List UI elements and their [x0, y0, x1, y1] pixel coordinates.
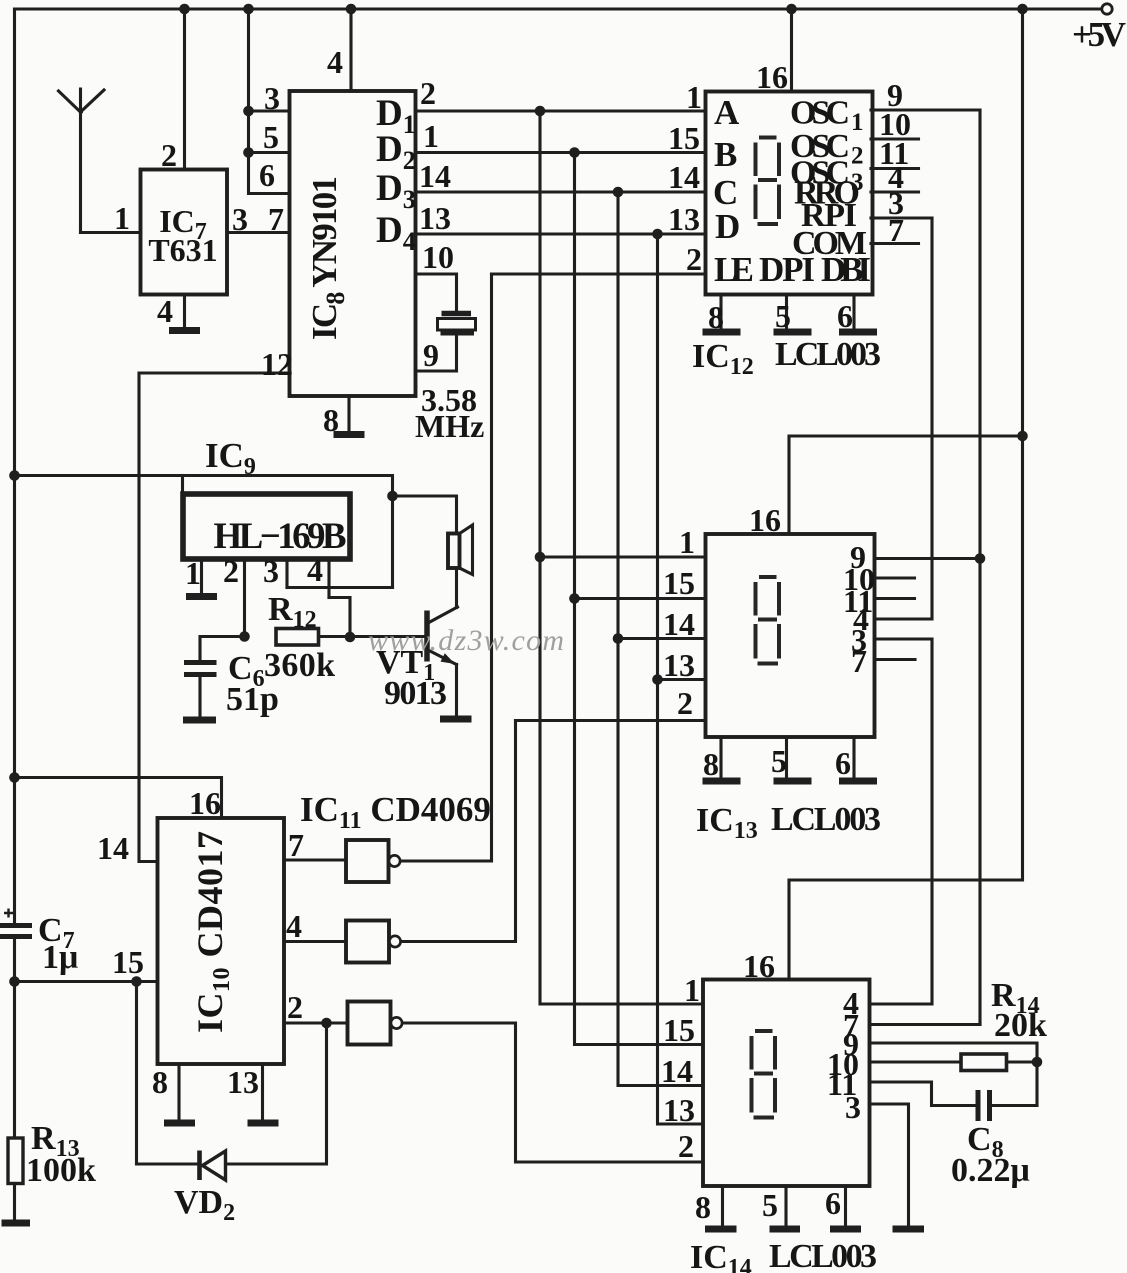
wire +5V vertical down to IC14 pin16: [789, 9, 1023, 980]
antenna: [59, 89, 105, 233]
wire antenna to IC7 pin1: [81, 200, 141, 236]
svg-text:LCL003: LCL003: [771, 801, 881, 838]
ground HL pin1: [186, 593, 217, 600]
wire IC8 pins 3,5,6 to rail: [249, 9, 290, 194]
ground R13: [2, 1220, 31, 1227]
junction pin3: [243, 106, 254, 117]
label IC11 CD4069: [300, 790, 491, 834]
wire pin4 jog to VT1 base node: [329, 598, 350, 638]
svg-text:B: B: [714, 135, 737, 174]
svg-text:1: 1: [185, 555, 201, 591]
svg-text:360k: 360k: [264, 647, 335, 684]
wire IC13 pin15: [575, 565, 706, 601]
7-segment digit icon IC12: [754, 136, 782, 227]
junction D4/IC13 pin13: [652, 674, 663, 685]
wire IC13 pin9 to OSC1: [850, 539, 980, 575]
label IC14 LCL003: [690, 1238, 877, 1273]
junction border pin15: [9, 976, 20, 987]
junction rail-IC7: [179, 4, 190, 15]
ground IC12 pin8: [703, 329, 741, 336]
resistor R12 360k: [264, 591, 427, 684]
wire IC13 pin3 to IC14 pin4: [870, 639, 933, 1004]
wire IC10 pin16 to left border: [15, 778, 222, 822]
svg-text:1μ: 1μ: [42, 939, 78, 976]
capacitor C7 1u (polarized): [0, 909, 78, 977]
wire R13 to ground: [13, 1184, 16, 1221]
svg-text:8: 8: [152, 1064, 168, 1100]
label IC14 pin4: [843, 985, 859, 1021]
svg-text:2: 2: [678, 1128, 694, 1164]
stub IC13 pin10: [843, 561, 915, 597]
svg-text:20k: 20k: [994, 1007, 1047, 1044]
wire IC13 pin1: [540, 524, 706, 560]
stub IC12 pin11: [871, 135, 919, 171]
wire +5V top rail: [15, 7, 1102, 10]
junction D1/IC13 pin1: [535, 552, 546, 563]
svg-text:IC8 YN9101: IC8 YN9101: [305, 176, 350, 340]
wire IC9 top net from left border: [15, 476, 393, 588]
label IC14 pin13: [663, 1092, 695, 1128]
junction D3/IC13 pin14: [613, 633, 624, 644]
wire IC10 pin13: [227, 1064, 263, 1121]
transistor VT1 9013: [376, 607, 458, 717]
7-segment digit icon IC13: [754, 575, 782, 666]
svg-text:15: 15: [663, 1012, 695, 1048]
svg-text:8: 8: [703, 746, 719, 782]
label IC13 LCL003: [696, 801, 881, 844]
svg-text:IC10 CD4017: IC10 CD4017: [190, 831, 235, 1033]
svg-text:LE: LE: [714, 250, 754, 289]
wire IC14 pin11 to C8: [827, 1066, 976, 1106]
ground VT1 emitter: [440, 716, 472, 723]
IC14 LCL003: [703, 948, 870, 1186]
svg-text:1: 1: [686, 79, 702, 115]
label IC14 pin1: [684, 972, 700, 1008]
svg-text:16: 16: [189, 785, 221, 821]
svg-text:15: 15: [663, 565, 695, 601]
wire IC13 pin14: [618, 606, 706, 642]
label IC13 pin2: [677, 685, 693, 721]
svg-text:2: 2: [161, 137, 177, 173]
wire gate2 output to IC13 pin2: [401, 721, 516, 942]
svg-text:15: 15: [668, 120, 700, 156]
svg-text:3: 3: [232, 201, 248, 237]
7-segment digit icon IC14: [750, 1029, 778, 1120]
resistor R14 20k: [961, 977, 1047, 1071]
svg-text:OSC: OSC: [790, 95, 850, 132]
svg-text:14: 14: [668, 159, 700, 195]
wire LE vertical to gate1 output: [490, 274, 493, 860]
svg-text:IC11 CD4069: IC11 CD4069: [300, 790, 491, 834]
svg-text:1: 1: [679, 524, 695, 560]
wire OSC1 vertical (IC12 pin9 - IC13 pin9 - IC14 pin7): [978, 110, 981, 1025]
wire IC13 pin6: [835, 737, 854, 781]
junction rail-right vertical: [1017, 4, 1028, 15]
ground IC13 pin5: [774, 778, 812, 785]
svg-text:100k: 100k: [26, 1152, 96, 1189]
ground IC12 pin5: [774, 329, 812, 336]
junction D3: [613, 187, 624, 198]
svg-text:5: 5: [771, 743, 787, 779]
ground IC14 pin5: [770, 1226, 801, 1233]
wire IC12 pin9 OSC1: [871, 77, 980, 113]
wire VD2 to IC10 pin2 node: [226, 1023, 327, 1164]
wire IC13 pin13: [658, 647, 706, 683]
wire HL pin3: [263, 553, 287, 589]
ground IC10 pin13: [248, 1120, 279, 1127]
watermark: [368, 624, 564, 657]
label IC14 pin2: [678, 1128, 694, 1164]
svg-text:LCL003: LCL003: [769, 1238, 877, 1273]
svg-text:D: D: [715, 207, 740, 246]
svg-text:1: 1: [423, 118, 439, 154]
crystal 3.58MHz: [415, 314, 484, 445]
svg-text:7: 7: [288, 827, 304, 863]
svg-text:HL−169B: HL−169B: [214, 516, 347, 557]
label IC14 pin14: [661, 1053, 693, 1089]
svg-text:MHz: MHz: [415, 408, 484, 444]
svg-text:3: 3: [263, 553, 279, 589]
wire speaker to VT1 collector: [455, 568, 458, 608]
svg-text:14: 14: [419, 158, 451, 194]
label IC10 pin14: [97, 830, 129, 866]
wire to speaker: [393, 496, 457, 534]
svg-text:3: 3: [845, 1089, 861, 1125]
IC12 LCL003: [706, 92, 873, 295]
stub IC12 pin4: [871, 159, 919, 195]
svg-text:14: 14: [661, 1053, 693, 1089]
ground IC12 pin6: [839, 329, 877, 336]
svg-text:7: 7: [268, 201, 284, 237]
wire IC7 pin3 to IC8 pin7: [227, 201, 290, 237]
wire IC12 pin6: [837, 295, 854, 335]
svg-text:2: 2: [686, 241, 702, 277]
svg-text:10: 10: [422, 239, 454, 275]
svg-text:9: 9: [423, 337, 439, 373]
junction D2/IC13 pin15: [569, 593, 580, 604]
wire IC12 pin8: [708, 295, 724, 336]
stub IC13 pin11: [843, 583, 915, 619]
wire IC14 pin9 to R14 node: [843, 1026, 1037, 1062]
junction pin5: [243, 147, 254, 158]
wire IC13 pin16 to +5V: [789, 436, 1023, 534]
wire RPI vertical (IC12 pin3 - IC13 pin4): [875, 218, 933, 619]
stub IC12 pin10: [871, 106, 919, 142]
inverter gate3 IC11: [348, 1002, 403, 1045]
svg-text:2: 2: [420, 75, 436, 111]
svg-text:15: 15: [112, 944, 144, 980]
wire D2 bus vertical to IC14 pin15: [575, 153, 704, 1045]
label IC13 pin4: [853, 601, 869, 637]
svg-text:14: 14: [663, 606, 695, 642]
junction pin15 VD2 branch: [131, 976, 142, 987]
ground IC13 pin8: [703, 778, 741, 785]
wire HL pin2 down to R12 node: [223, 553, 245, 637]
svg-text:+5V: +5V: [1072, 15, 1126, 54]
svg-text:1: 1: [114, 200, 130, 236]
label IC13 pin3: [851, 622, 867, 658]
wire IC10 pin2 to gate3: [284, 989, 348, 1025]
svg-text:www.dz3w.com: www.dz3w.com: [368, 624, 564, 657]
wire HL pin4: [307, 552, 329, 598]
IC8 YN9101: [290, 91, 416, 396]
wire C7 to pin15 node and R13: [13, 939, 16, 1138]
svg-text:12: 12: [261, 346, 293, 382]
wire gate3 output to IC14 pin2: [403, 1023, 704, 1162]
junction pin2 VD2: [321, 1018, 332, 1029]
wire D3 bus vertical to IC14 pin14: [618, 192, 703, 1086]
svg-text:4: 4: [307, 552, 323, 588]
svg-text:A: A: [714, 93, 740, 132]
wire HL-169B top-left to IC9 net: [181, 476, 184, 494]
wire IC14 pin6: [825, 1185, 846, 1227]
junction left border IC9: [9, 470, 20, 481]
terminal +5V: [1072, 4, 1126, 54]
ground IC10 pin8: [164, 1120, 195, 1127]
IC7 T631: [141, 170, 228, 295]
wire D4 IC8 pin13 to IC12 D: [416, 200, 706, 237]
label D4: [376, 210, 416, 256]
ground C6: [183, 717, 216, 724]
wire D1 IC8 pin2 to IC12 A: [416, 75, 706, 115]
svg-text:3: 3: [264, 80, 280, 116]
ground IC14 pin6: [830, 1226, 861, 1233]
inverter gate1 IC11: [346, 840, 400, 882]
wire LE line to IC12 pin2: [492, 241, 706, 277]
svg-text:13: 13: [668, 201, 700, 237]
label D1: [376, 93, 416, 139]
svg-text:2: 2: [677, 685, 693, 721]
svg-text:13: 13: [419, 200, 451, 236]
junction +5V/IC13 pin16: [1017, 431, 1028, 442]
svg-text:13: 13: [227, 1064, 259, 1100]
junction D2: [569, 147, 580, 158]
stub IC12 pin7: [871, 212, 919, 248]
svg-text:2: 2: [287, 989, 303, 1025]
svg-text:16: 16: [749, 502, 781, 538]
wire pins3-4 link: [287, 586, 393, 589]
ground IC14 pin8: [705, 1226, 737, 1233]
label D3: [376, 168, 416, 214]
svg-text:5: 5: [263, 119, 279, 155]
junction rail-IC12 pin16: [786, 4, 797, 15]
junction HL pin2 / C6 / R12: [239, 631, 250, 642]
svg-text:LCL003: LCL003: [775, 336, 881, 373]
svg-text:13: 13: [663, 647, 695, 683]
svg-text:6: 6: [835, 745, 851, 781]
capacitor C6: [184, 637, 279, 719]
svg-text:1: 1: [684, 972, 700, 1008]
IC10 CD4017: [158, 818, 285, 1064]
svg-text:16: 16: [756, 59, 788, 95]
wire IC10 pin4 to gate2: [284, 908, 346, 944]
junction D4: [652, 229, 663, 240]
label IC12 LCL003: [692, 336, 881, 380]
svg-text:51p: 51p: [226, 681, 279, 718]
junction speaker branch: [387, 491, 398, 502]
label IC14 pin15: [663, 1012, 695, 1048]
wire IC12 pin16 to rail: [756, 9, 792, 95]
wire D2 IC8 pin1 to IC12 B: [416, 118, 706, 156]
diode VD2: [174, 1151, 235, 1227]
svg-text:6: 6: [825, 1185, 841, 1221]
junction D1: [535, 106, 546, 117]
wire D4 bus vertical to IC14 pin13: [658, 234, 704, 1124]
svg-text:5: 5: [762, 1187, 778, 1223]
wire IC8 pin4 to rail: [327, 9, 351, 91]
junction left border pin16: [9, 772, 20, 783]
svg-text:6: 6: [259, 157, 275, 193]
wire gate1 output to LE12 vertical: [401, 859, 492, 862]
wire IC14 pin5: [762, 1186, 786, 1227]
wire IC7 pin2 to rail: [161, 9, 185, 173]
ground IC8 pin8: [334, 431, 365, 438]
wire IC13 pin5: [771, 737, 787, 779]
junction rail-IC8 pin4: [346, 4, 357, 15]
svg-text:0.22μ: 0.22μ: [951, 1152, 1030, 1189]
wire IC13 pin2 horizontal: [516, 719, 706, 722]
svg-text:4: 4: [327, 44, 343, 80]
svg-text:7: 7: [888, 212, 904, 248]
speaker: [448, 525, 473, 575]
wire crystal to IC8 pin9: [416, 336, 457, 374]
wire IC8 pin12 down to IC10 pin14: [139, 346, 293, 862]
ground IC14 pin3: [893, 1226, 925, 1233]
svg-text:9013: 9013: [384, 675, 447, 712]
resistor R13 100k: [8, 1120, 96, 1189]
wire IC14 pin8: [695, 1186, 723, 1227]
svg-text:2: 2: [851, 143, 864, 170]
inverter gate2 IC11: [346, 921, 401, 963]
ground IC7 pin4: [169, 327, 200, 334]
junction R14/C8 node: [1032, 1057, 1043, 1068]
svg-text:1: 1: [851, 109, 864, 136]
svg-text:COM: COM: [792, 225, 867, 262]
svg-text:4: 4: [286, 908, 302, 944]
IC13 LCL003: [706, 502, 875, 737]
wire IC13 pin8: [703, 737, 721, 782]
svg-text:T631: T631: [148, 232, 217, 268]
junction R12 right / VT1 base: [345, 632, 356, 643]
svg-text:2: 2: [223, 553, 239, 589]
wire IC10 pin8: [152, 1064, 179, 1121]
wire D1 bus vertical to IC14 pin1: [540, 111, 703, 1004]
wire IC14 pin7 to OSC1 vertical: [843, 1007, 980, 1043]
wire IC7 pin4: [157, 293, 185, 329]
junction OSC1/IC13 pin9: [975, 553, 986, 564]
svg-text:8: 8: [695, 1189, 711, 1225]
svg-text:7: 7: [851, 643, 867, 679]
svg-text:16: 16: [743, 948, 775, 984]
IC9 HL-169B: [183, 494, 350, 559]
capacitor C8 0.22u: [951, 1062, 1037, 1189]
ground IC13 pin6: [839, 778, 877, 785]
label IC9: [205, 436, 256, 480]
wire pin15 node down to VD2: [137, 982, 199, 1165]
wire IC8 pin10 to crystal: [416, 239, 457, 314]
wire IC12 pin5: [775, 295, 791, 335]
label D2: [376, 129, 416, 175]
junction rail-IC8 left pins: [243, 4, 254, 15]
svg-text:13: 13: [663, 1092, 695, 1128]
stub IC13 pin7: [851, 643, 915, 679]
wire IC14 pin3 to ground: [845, 1089, 909, 1227]
wire IC12 pin3 RPI: [871, 185, 932, 221]
wire IC14 pin10 to R14: [827, 1046, 961, 1082]
wire IC10 pin15 from left border: [15, 944, 158, 982]
wire HL pin1: [185, 555, 202, 594]
wire left border (+5V down to C7): [13, 9, 16, 925]
wire IC8 pin8: [323, 396, 349, 438]
svg-text:4: 4: [157, 293, 173, 329]
wire IC10 pin7 to gate1: [284, 827, 346, 863]
wire D3 IC8 pin14 to IC12 C: [416, 158, 706, 195]
svg-text:14: 14: [97, 830, 129, 866]
